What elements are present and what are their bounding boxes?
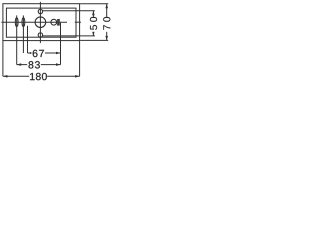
right slot center line bbox=[22, 15, 24, 53]
arrowhead 83 right bbox=[56, 63, 61, 66]
dimension line 83 bbox=[17, 64, 61, 66]
dimension line 67 bbox=[28, 52, 61, 54]
arrowhead 70 top bbox=[105, 4, 108, 9]
right extension line for 67 and 83 bbox=[60, 23, 62, 65]
horizontal center line bbox=[1, 21, 67, 23]
dimension line 70 vertical bbox=[106, 4, 108, 41]
label 83 bbox=[27, 61, 41, 69]
label 180 bbox=[29, 73, 47, 81]
top knockout circle bbox=[38, 9, 42, 13]
dimension line 50 vertical bbox=[92, 11, 94, 36]
left extension line for 180 bbox=[2, 41, 4, 77]
arrowhead 50 bottom bbox=[92, 31, 95, 36]
left mounting slot bbox=[15, 18, 18, 27]
dimension line 180 bbox=[3, 75, 80, 77]
arrowhead 180 left bbox=[3, 75, 8, 78]
right wiring hole circle bbox=[51, 19, 57, 25]
67 left extension line bbox=[27, 26, 29, 53]
right extension line for 180 bbox=[79, 41, 81, 77]
arrowhead 50 top bbox=[92, 11, 95, 16]
upper extension line to 50 dimension bbox=[42, 10, 95, 12]
vertical center line bbox=[39, 2, 41, 43]
outer housing rectangle bbox=[3, 4, 80, 41]
label 50 rotated bbox=[89, 17, 97, 32]
label 70 rotated bbox=[103, 17, 111, 32]
lower extension line to 50 dimension bbox=[42, 35, 95, 37]
center mounting circle bbox=[35, 17, 46, 28]
left slot center line / 83 extension line bbox=[16, 15, 18, 64]
terminal tab right of wiring hole bbox=[57, 19, 60, 26]
arrowhead 70 bottom bbox=[105, 36, 108, 41]
bottom extension line to 70 dimension bbox=[80, 39, 108, 41]
bottom knockout circle bbox=[38, 33, 42, 37]
inner housing rectangle bbox=[6, 8, 76, 37]
arrowhead 180 right bbox=[75, 75, 80, 78]
label 67 bbox=[31, 49, 45, 57]
arrowhead 83 left bbox=[17, 63, 22, 66]
arrowhead 67 left bbox=[28, 52, 33, 55]
horizontal center line right segment bbox=[75, 21, 81, 23]
top extension line to 70 dimension bbox=[80, 3, 108, 5]
arrowhead 67 right bbox=[56, 52, 61, 55]
right mounting slot bbox=[22, 18, 25, 27]
